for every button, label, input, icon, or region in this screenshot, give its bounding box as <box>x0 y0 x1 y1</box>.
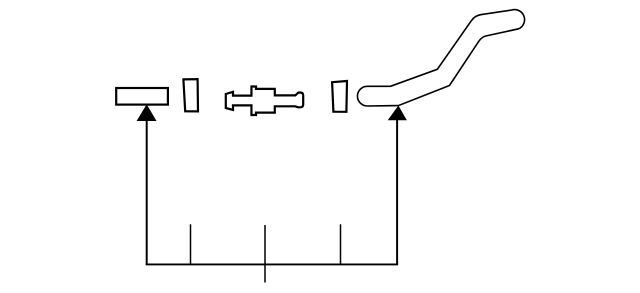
leader line, right vertical <box>396 120 398 265</box>
part 1: retainer plate (left rectangle) <box>116 88 168 105</box>
tick mark 3 <box>340 224 342 264</box>
bracket: bottom horizontal line <box>146 263 398 265</box>
tick mark 1 <box>190 224 192 264</box>
leader arrow head, left <box>137 104 157 121</box>
leader arrow head, right <box>388 106 407 121</box>
part 2: seal (small tilted rectangle, left) <box>183 79 198 111</box>
part 5: hose (S-curved tube) <box>357 10 524 106</box>
leader line, left vertical <box>146 120 148 265</box>
tick mark 2 (center, crosses line) <box>264 225 266 283</box>
part 3: PCV valve connector (middle) <box>226 87 303 116</box>
part 4: seal (small tilted rectangle, right) <box>332 81 347 112</box>
